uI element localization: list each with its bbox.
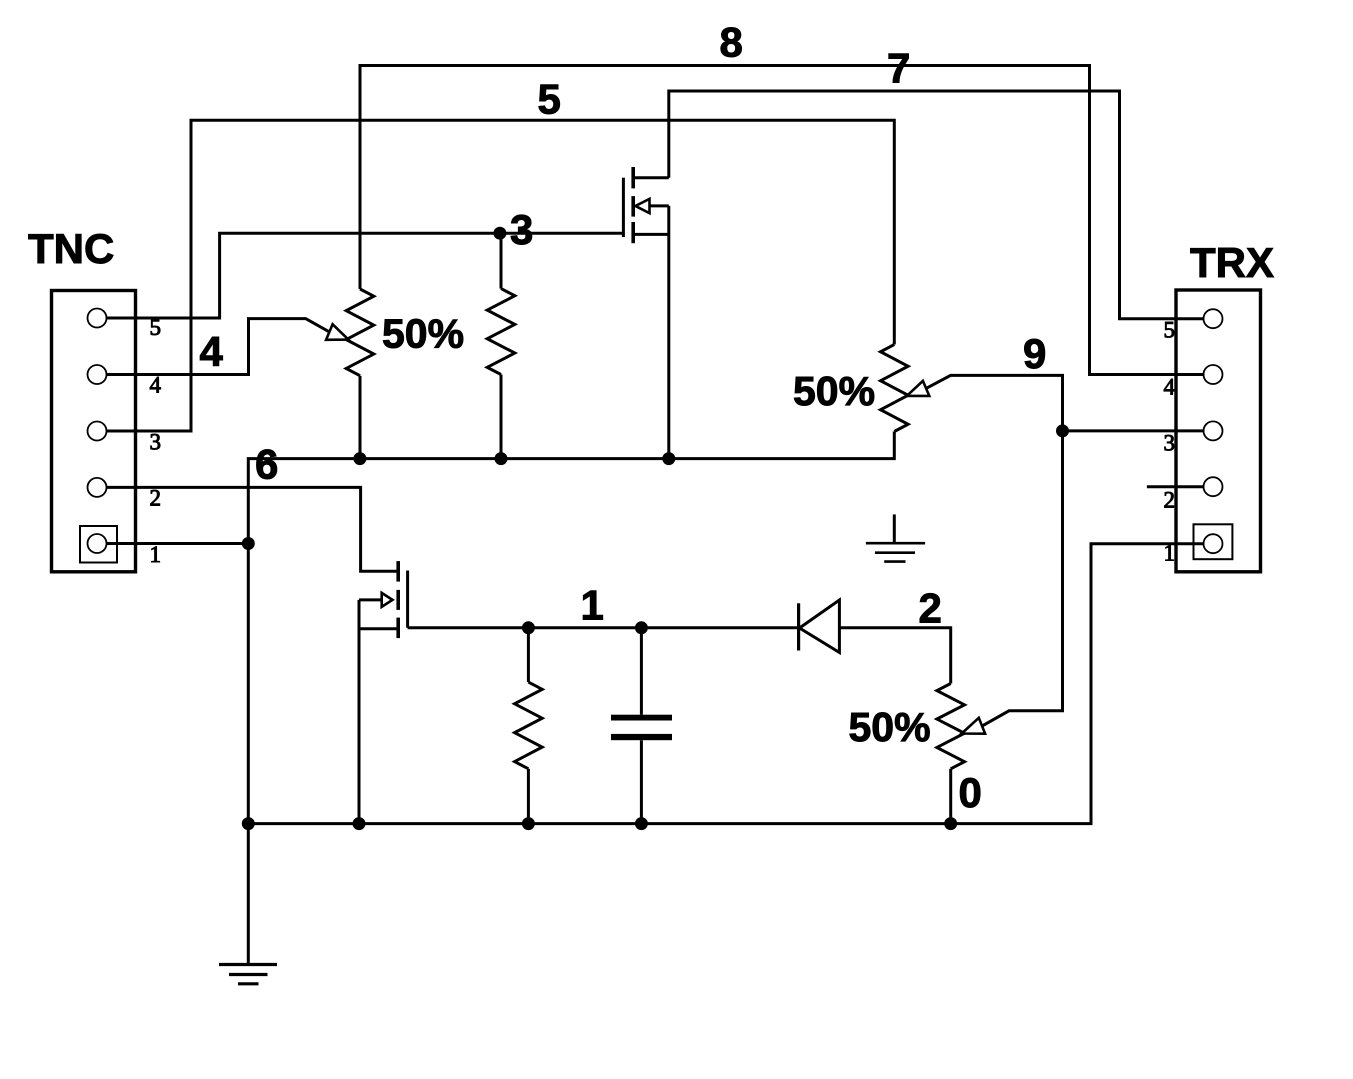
svg-text:7: 7	[887, 44, 910, 91]
svg-text:8: 8	[720, 18, 743, 65]
svg-text:50%: 50%	[793, 368, 875, 414]
svg-text:3: 3	[150, 429, 162, 454]
svg-text:1: 1	[581, 582, 604, 629]
svg-text:3: 3	[510, 206, 533, 253]
svg-text:5: 5	[150, 315, 162, 340]
svg-text:9: 9	[1023, 330, 1046, 377]
svg-text:50%: 50%	[849, 704, 931, 750]
svg-text:2: 2	[150, 486, 162, 511]
svg-text:2: 2	[919, 584, 942, 631]
svg-text:5: 5	[1164, 318, 1176, 343]
svg-text:2: 2	[1164, 488, 1176, 513]
svg-text:4: 4	[150, 372, 162, 397]
svg-text:4: 4	[200, 328, 224, 375]
svg-text:1: 1	[1164, 541, 1176, 566]
svg-text:6: 6	[255, 441, 278, 488]
svg-text:1: 1	[150, 542, 162, 567]
svg-text:5: 5	[538, 75, 561, 122]
svg-text:TRX: TRX	[1190, 239, 1274, 286]
svg-text:3: 3	[1164, 431, 1176, 456]
svg-text:4: 4	[1164, 375, 1176, 400]
svg-text:50%: 50%	[382, 311, 464, 357]
svg-text:TNC: TNC	[28, 225, 114, 272]
svg-text:0: 0	[959, 769, 982, 816]
